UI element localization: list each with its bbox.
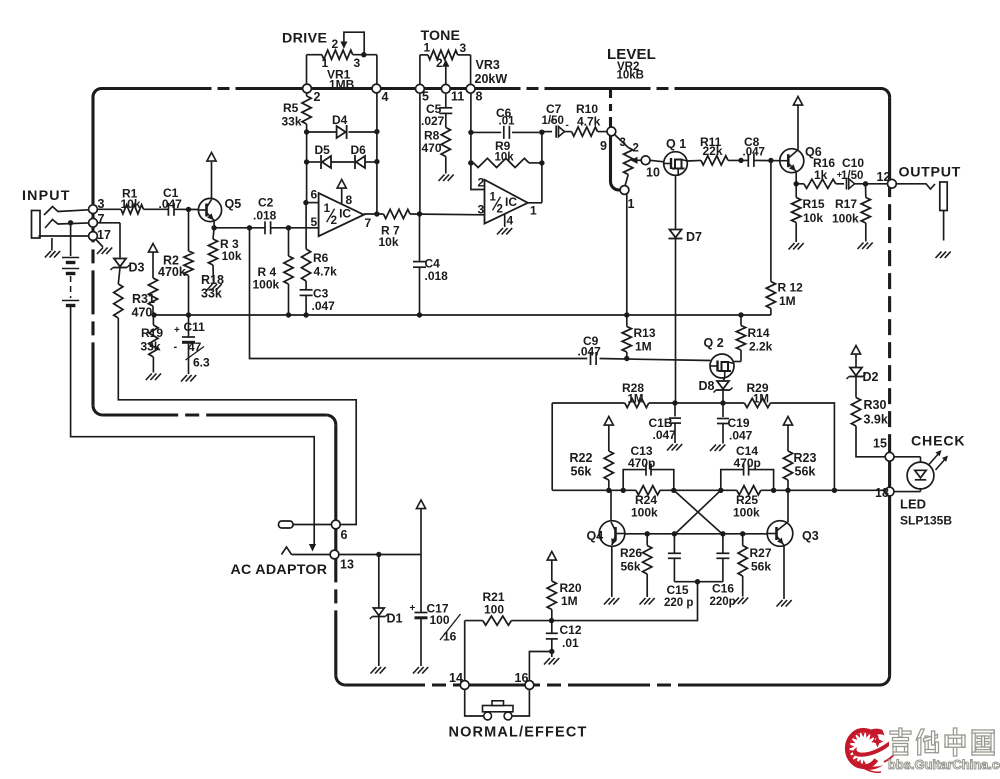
svg-text:AC ADAPTOR: AC ADAPTOR [231, 562, 328, 578]
svg-text:3: 3 [620, 137, 626, 149]
wire node3 to R1 [97, 208, 121, 210]
svg-text:Q5: Q5 [225, 197, 242, 211]
svg-text:100k: 100k [832, 212, 859, 226]
battery B1 cell3 [62, 301, 79, 310]
wire R31 down [118, 318, 356, 525]
label VR3 [475, 58, 508, 86]
ground C12 [544, 658, 559, 665]
ground node 17 [97, 248, 112, 255]
svg-text:33k: 33k [201, 287, 222, 301]
svg-text:.047: .047 [653, 428, 677, 442]
ground R26 [640, 598, 655, 605]
resistor R22 [570, 451, 614, 490]
svg-text:14: 14 [449, 671, 463, 685]
svg-text:3: 3 [478, 203, 485, 217]
svg-text:100k: 100k [733, 506, 760, 520]
label R11 value [703, 144, 723, 158]
svg-text:R6: R6 [313, 251, 329, 265]
resistor R6 [302, 249, 338, 281]
svg-text:100k: 100k [631, 506, 658, 520]
svg-text:1: 1 [530, 204, 537, 218]
label LED [900, 497, 952, 528]
ground output jack [936, 252, 951, 259]
node 1 [620, 186, 634, 211]
wire C7 to R10 [565, 131, 572, 133]
capacitor C9 [578, 334, 602, 365]
battery clip plug [279, 521, 332, 528]
svg-text:R27: R27 [750, 546, 772, 560]
ground op2 [497, 228, 512, 235]
wire base line [625, 531, 768, 536]
transistor Q4 [587, 521, 625, 547]
switch NORMAL/EFFECT [465, 689, 530, 719]
resistor R13 [622, 315, 656, 359]
resistor R18 [148, 273, 224, 315]
resistor R10 [572, 102, 601, 136]
svg-text:17: 17 [97, 228, 111, 242]
AC adaptor contact [282, 547, 331, 555]
svg-text:D8: D8 [699, 379, 715, 393]
svg-text:bbs.GuitarChina.com: bbs.GuitarChina.com [888, 757, 1000, 772]
wire op1 pin6 [306, 188, 319, 203]
wire flipflop bus [552, 488, 885, 493]
capacitor C18 [649, 403, 682, 443]
resistor R17 [832, 184, 870, 242]
wire R11 to C8 [728, 158, 748, 163]
svg-text:+: + [410, 603, 416, 614]
ground R17 [858, 243, 873, 250]
wire node10 to Q1 [650, 160, 664, 162]
svg-text:C7: C7 [546, 102, 562, 116]
capacitor C6 [496, 106, 515, 139]
label LEVEL [607, 46, 656, 63]
svg-text:R15: R15 [803, 197, 825, 211]
wire jack tip contact [44, 207, 93, 216]
label DRIVE [282, 31, 327, 47]
svg-text:R31: R31 [132, 292, 155, 306]
svg-text:9: 9 [600, 139, 607, 153]
label OUTPUT [899, 165, 962, 181]
output jack plug [940, 182, 947, 241]
wire node17 ground stub [96, 239, 104, 247]
wire R12 to bus [741, 314, 771, 316]
svg-text:R5: R5 [283, 101, 299, 115]
svg-text:47: 47 [188, 340, 202, 354]
node 6 [331, 520, 347, 542]
node 15 [873, 437, 894, 462]
svg-text:R13: R13 [634, 326, 656, 340]
svg-text:R14: R14 [748, 326, 770, 340]
ground Q4 [604, 598, 619, 605]
svg-text:C12: C12 [560, 623, 582, 637]
resistor R15 [792, 184, 825, 242]
wire Q6 collector [797, 106, 799, 150]
wire D5 D6 line [304, 159, 380, 165]
svg-text:INPUT: INPUT [22, 188, 71, 204]
wire D7 down [675, 239, 677, 404]
svg-text:5: 5 [311, 215, 318, 229]
label CHECK [911, 434, 965, 450]
wire R2 drop [188, 209, 190, 251]
svg-text:C10: C10 [842, 156, 864, 170]
svg-text:-: - [566, 120, 569, 131]
power arrow R20 [547, 552, 556, 582]
svg-text:C16: C16 [712, 582, 734, 596]
ground R19 [146, 374, 161, 381]
svg-text:6: 6 [311, 188, 318, 202]
wire C8 to Q6 [754, 158, 780, 163]
ground R15 [789, 243, 804, 250]
svg-text:470p: 470p [628, 456, 655, 470]
svg-text:NORMAL/EFFECT: NORMAL/EFFECT [449, 725, 588, 741]
svg-text:2: 2 [331, 215, 337, 227]
svg-text:OUTPUT: OUTPUT [899, 165, 962, 181]
node 10 [641, 156, 660, 180]
svg-text:R19: R19 [141, 326, 163, 340]
label op1 pin5 [311, 215, 318, 229]
svg-text:IC: IC [339, 207, 351, 221]
wire R21 to R20 [549, 618, 554, 623]
svg-text:1M: 1M [753, 394, 769, 406]
svg-text:100: 100 [430, 613, 450, 627]
diode D8 [699, 379, 733, 393]
wire R6 to C3 [305, 281, 307, 290]
svg-text:.047: .047 [743, 147, 765, 159]
svg-text:1k: 1k [814, 168, 828, 182]
transistor Q1 (FET) [664, 137, 688, 175]
svg-text:10k: 10k [803, 211, 823, 225]
wire C5 to R8 [445, 113, 447, 127]
label VR1 pins [322, 37, 361, 70]
wire R29 right [770, 403, 834, 490]
capacitor C15 [664, 534, 693, 609]
svg-text:56k: 56k [751, 560, 771, 574]
wire node7 right [97, 223, 120, 259]
power arrow Q5 [207, 153, 216, 162]
resistor R1 [121, 187, 144, 214]
resistor R30 [851, 398, 887, 457]
svg-text:R23: R23 [794, 451, 817, 465]
resistor R21 [483, 590, 512, 625]
wire node8 down [468, 93, 484, 190]
diode D3 [111, 259, 145, 275]
capacitor C2 [253, 196, 277, 235]
node 4 [372, 84, 389, 104]
svg-text:D4: D4 [332, 113, 348, 127]
svg-text:20kW: 20kW [475, 72, 508, 86]
potentiometer VR3 [420, 50, 471, 88]
wire Q3 emitter [783, 546, 785, 600]
label VR2 pins [620, 137, 639, 155]
resistor R26 [620, 534, 652, 597]
capacitor C17 [410, 555, 461, 667]
svg-text:8: 8 [476, 90, 483, 104]
label AC ADAPTOR [231, 562, 328, 578]
svg-text:2: 2 [633, 143, 639, 155]
svg-text:R17: R17 [835, 197, 857, 211]
svg-text:.047: .047 [312, 299, 336, 313]
diode D4 [332, 113, 348, 139]
wire C10 to node12 [855, 181, 888, 186]
wire battery negative run [71, 309, 315, 544]
diode D1 [370, 555, 403, 667]
power arrow C17 [416, 500, 425, 555]
wire cross diagonal B [674, 490, 720, 534]
wire VR1 wiper loop [340, 32, 366, 57]
capacitor C11 [174, 315, 210, 374]
wire Q6 emitter [794, 172, 799, 187]
node 11 [441, 84, 464, 103]
svg-text:D3: D3 [129, 261, 145, 275]
svg-text:R 12: R 12 [778, 281, 804, 295]
resistor R4 [253, 228, 294, 315]
svg-text:1M: 1M [635, 340, 652, 354]
LED arrows [929, 450, 948, 470]
LED D9 CHECK [907, 462, 934, 489]
label op2 pin3 [478, 203, 485, 217]
svg-text:10k: 10k [121, 197, 141, 211]
svg-text:.018: .018 [425, 269, 449, 283]
capacitor C4 wires [419, 214, 421, 315]
wire R28 vert left [551, 403, 553, 490]
capacitor C16 [710, 534, 736, 608]
svg-text:10k: 10k [495, 152, 515, 164]
wire D5 line to pin6 [306, 162, 308, 203]
resistor R24 [631, 486, 660, 520]
svg-text:220p: 220p [710, 596, 736, 608]
svg-text:10: 10 [646, 166, 660, 180]
wire Q2 source [723, 378, 725, 381]
capacitor C8 [743, 135, 765, 167]
wire LED to node18 [894, 489, 921, 492]
wire R8 to ground [445, 157, 447, 174]
svg-text:18: 18 [875, 486, 889, 500]
wire C2 to op1 pin5 [271, 225, 319, 230]
transistor Q2 (FET) [704, 336, 735, 378]
wire VR2 wiper [631, 157, 642, 164]
svg-text:D5: D5 [315, 143, 331, 157]
node 7 [89, 212, 105, 227]
svg-text:R22: R22 [570, 451, 593, 465]
wire pin6 vertical [303, 200, 308, 249]
wire R10 to node9 [598, 131, 607, 133]
logo text GuitarChina (drawn) [890, 728, 994, 756]
capacitor C3 [300, 287, 336, 314]
resistor R5 [282, 93, 312, 132]
svg-text:Q 2: Q 2 [704, 336, 724, 350]
wire C3 to bus [305, 295, 307, 315]
wire battery dashed [70, 276, 72, 298]
node 16 [515, 671, 534, 689]
wire D4 line [304, 129, 380, 135]
wire emitter junction [211, 225, 216, 230]
svg-text:1: 1 [490, 191, 497, 203]
resistor R9 line [468, 139, 544, 168]
svg-text:3: 3 [354, 56, 361, 70]
logo dragon icon [847, 729, 896, 773]
svg-text:+: + [550, 117, 555, 126]
svg-text:1: 1 [324, 203, 331, 215]
wire node11 to C5 [445, 93, 447, 108]
wire output jack tip [896, 184, 935, 189]
resistor R27 [738, 534, 772, 597]
resistor R20 [547, 581, 582, 621]
input jack plug [32, 211, 52, 251]
power arrow op1 [337, 180, 352, 208]
ground D1 [371, 667, 386, 674]
capacitor C14 [721, 444, 774, 490]
capacitor C4 [413, 257, 448, 284]
svg-text:470: 470 [422, 141, 442, 155]
node 3 [89, 197, 105, 214]
wire op2 out [528, 132, 542, 217]
svg-text:100k: 100k [253, 278, 280, 292]
svg-text:.01: .01 [562, 636, 579, 650]
wire jack sleeve [39, 235, 94, 237]
diode D7 [669, 230, 703, 245]
svg-text:1/50: 1/50 [841, 170, 863, 182]
node 14 [449, 671, 469, 689]
svg-text:3: 3 [460, 41, 467, 55]
node 12 [877, 170, 897, 188]
resistor R14 [734, 315, 773, 362]
wire R7 to op2 pin3 [410, 211, 485, 216]
diode D2 [847, 368, 879, 385]
svg-text:13: 13 [340, 558, 354, 572]
wire R1 to C1 [144, 208, 169, 210]
svg-text:VR3: VR3 [476, 58, 500, 72]
node 18 [875, 486, 894, 500]
wire node4 vertical [376, 92, 378, 214]
resistor R23 [783, 451, 816, 490]
svg-text:1MB: 1MB [329, 78, 355, 92]
svg-text:56k: 56k [571, 465, 592, 479]
wire Q1 source down [675, 175, 677, 229]
label VR1 [327, 68, 355, 92]
svg-text:R30: R30 [864, 398, 887, 412]
svg-text:+: + [837, 170, 842, 180]
svg-text:.027: .027 [421, 114, 445, 128]
ground C17 [413, 667, 428, 674]
capacitor C10 [836, 156, 865, 190]
label VR2 [617, 61, 645, 82]
potentiometer VR2 [615, 135, 633, 187]
svg-text:+: + [174, 325, 180, 336]
ground input jack sleeve [45, 251, 60, 258]
wire Q3 collector [787, 490, 789, 522]
power arrow Q6 [793, 97, 802, 106]
svg-text:56k: 56k [795, 465, 816, 479]
battery B1 cell2 [62, 269, 79, 274]
svg-text:SLP135B: SLP135B [900, 514, 952, 528]
capacitor C5 [421, 102, 452, 128]
svg-text:LED: LED [900, 497, 926, 512]
svg-text:2: 2 [314, 90, 321, 104]
transistor Q3 [767, 521, 819, 547]
capacitor C13 [623, 444, 674, 490]
svg-text:33k: 33k [282, 115, 302, 129]
wire Q1 drain to R11 [687, 159, 701, 162]
svg-text:470: 470 [132, 306, 153, 320]
wire jack ring contact [45, 220, 93, 229]
logo url text [888, 757, 1000, 772]
wire D8 down [722, 390, 724, 403]
svg-text:470k: 470k [158, 265, 186, 279]
wire battery feed [68, 220, 73, 256]
resistor R28 [622, 381, 649, 408]
svg-text:7: 7 [98, 212, 105, 226]
power arrow D2 [851, 346, 860, 368]
wire lower bus right [600, 356, 711, 361]
resistor R16 [796, 156, 836, 188]
wire lower bus from C2 [250, 228, 588, 359]
label INPUT [22, 188, 71, 204]
wire C15 C16 join [511, 579, 723, 621]
label R28 value [628, 394, 644, 406]
svg-text:D1: D1 [387, 612, 403, 626]
ground Q3 [777, 600, 792, 607]
svg-text:10kB: 10kB [617, 70, 645, 82]
svg-text:220 p: 220 p [664, 597, 693, 609]
resistor R12 [766, 161, 803, 316]
svg-text:4.7k: 4.7k [314, 265, 338, 279]
wire Q4 collector [610, 490, 612, 521]
svg-text:2: 2 [436, 56, 443, 70]
capacitor C1 [159, 186, 183, 216]
wire node1 down [626, 194, 628, 315]
wire Q5 collector [211, 162, 213, 200]
resistor R31 [114, 284, 155, 320]
power arrow R22 [604, 417, 613, 452]
wire node13 right [339, 552, 421, 557]
wire thick branch to LEVEL pot VR2 [611, 90, 622, 190]
wire C18 to D8 wire [675, 400, 726, 405]
op-amp U1A [319, 193, 364, 236]
ground R8 [439, 175, 454, 182]
svg-text:D7: D7 [686, 230, 702, 244]
wire R28 left [552, 402, 625, 404]
resistor R19 [141, 315, 178, 373]
node 2 [303, 84, 321, 104]
svg-text:2: 2 [497, 203, 503, 215]
node 9 [600, 127, 616, 153]
svg-text:4: 4 [382, 90, 389, 104]
wire op2 pin4 [505, 214, 514, 228]
wire Q4 emitter [611, 546, 613, 597]
svg-text:R18: R18 [201, 273, 224, 287]
resistor R11 [700, 135, 728, 165]
wire cross diagonal A [674, 490, 723, 534]
svg-text:1M: 1M [561, 594, 578, 608]
resistor R29 [723, 381, 770, 408]
arrow battery to node13 [309, 544, 316, 552]
wire D3 to R31 [118, 268, 120, 285]
svg-text:IC: IC [505, 195, 517, 209]
ground R27 [733, 598, 748, 605]
diode D5 [315, 143, 332, 169]
wire thick dash-dot signal loop [93, 89, 890, 686]
resistor R25 [733, 486, 761, 520]
ground C18 [667, 444, 682, 451]
svg-text:8: 8 [346, 193, 353, 207]
diode D6 [351, 143, 367, 169]
node 8 [466, 84, 482, 103]
svg-text:33k: 33k [141, 340, 161, 354]
power arrow R18 [148, 244, 157, 279]
svg-text:22k: 22k [703, 144, 723, 158]
wire bus mid [151, 312, 743, 317]
svg-text:1M: 1M [779, 294, 796, 308]
